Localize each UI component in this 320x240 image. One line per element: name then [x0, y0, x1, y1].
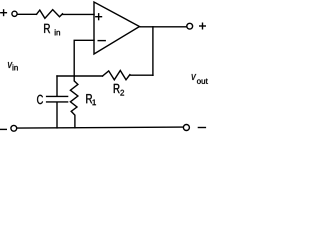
label R1 sub 1: [93, 100, 96, 106]
bottom rail: [17, 127, 183, 128]
terminal label - (bottom-right): [198, 127, 205, 129]
label vin v: [8, 62, 12, 68]
op-amp + input mark: [96, 14, 102, 20]
label Rin R: [44, 24, 50, 33]
label C: [37, 95, 43, 104]
bottom-left terminal circle: [11, 125, 17, 131]
wire: output branch down to feedback (vertical): [152, 27, 154, 76]
op-amp - input mark: [98, 40, 105, 42]
wire: R2 to output branch: [130, 74, 153, 76]
bottom-right terminal circle: [183, 125, 189, 131]
terminal label + (top-left): [1, 10, 7, 16]
resistor R1: [70, 76, 78, 128]
label R1 R: [86, 94, 92, 103]
wire: input terminal to Rin: [17, 13, 36, 15]
label R2 sub 2: [120, 90, 124, 96]
wire: Rin to op-amp + input: [63, 13, 95, 15]
terminal label + (top-right): [200, 23, 206, 29]
op-amp U1: [94, 2, 140, 54]
label R2 R: [114, 84, 120, 93]
wire: op-amp output: [140, 26, 187, 28]
capacitor C: [47, 76, 68, 128]
terminal label - (bottom-left): [0, 128, 6, 130]
label vout v: [192, 74, 197, 80]
wire: inverting input to node: [74, 40, 94, 76]
label vin sub in: [13, 65, 18, 71]
resistor R2: [103, 71, 130, 80]
label Rin sub in: [55, 29, 60, 35]
output terminal circle (top-right): [187, 23, 193, 29]
node wire (inverting node): [57, 75, 103, 77]
label vout sub out: [197, 79, 208, 84]
input terminal circle (top-left): [12, 11, 17, 16]
resistor Rin: [37, 10, 63, 19]
